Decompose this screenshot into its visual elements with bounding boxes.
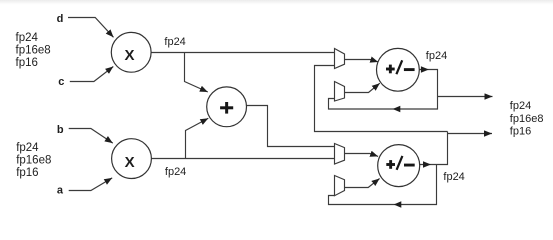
mux A: [335, 49, 345, 69]
mux C: [335, 144, 345, 165]
wire cascade from lower junction up to mux A second input: [315, 66, 448, 132]
multiplier M1 circle: [111, 32, 151, 72]
svg-text:fp24: fp24: [510, 100, 531, 112]
svg-text:fp16e8: fp16e8: [16, 44, 51, 56]
operator +/- of U2 drawn as strokes: [386, 156, 414, 170]
wire tap M1 product down to adder U3: [185, 53, 208, 93]
svg-text:X: X: [124, 47, 134, 64]
svg-text:fp24: fp24: [443, 171, 464, 183]
svg-text:fp24: fp24: [16, 142, 39, 154]
add/sub U1 circle: [377, 48, 420, 91]
operator +/- of U1 drawn as strokes: [386, 60, 415, 74]
wire U2 feedback down and back into mux D: [329, 165, 437, 205]
svg-text:fp16e8: fp16e8: [16, 155, 51, 167]
arrowhead U1 output: [421, 66, 429, 72]
wire mux A output to U1: [345, 60, 379, 63]
svg-text:fp24: fp24: [164, 36, 185, 48]
wire input a: [69, 178, 113, 191]
svg-text:b: b: [57, 124, 64, 136]
svg-text:fp16e8: fp16e8: [510, 113, 544, 125]
svg-text:X: X: [125, 154, 135, 171]
wire mux B output to U1: [345, 83, 380, 92]
svg-text:fp24: fp24: [16, 32, 39, 44]
svg-text:fp16: fp16: [510, 126, 531, 138]
add/sub U2 circle: [378, 145, 420, 187]
operator plus of U3 drawn as strokes: [220, 102, 233, 114]
wire mux D output to U2: [345, 179, 380, 188]
wire multiplier M1 output to mux A: [151, 52, 334, 54]
svg-text:c: c: [58, 76, 64, 88]
svg-text:fp24: fp24: [426, 50, 447, 62]
top edge shading: [0, 0, 553, 5]
svg-text:fp24: fp24: [165, 166, 186, 178]
arrowhead U1 feedback mid-line pointing left: [393, 106, 401, 112]
arrowhead U2 feedback mid-line pointing left: [394, 201, 402, 207]
wire U1 output down and feedback back into mux B: [329, 70, 438, 110]
wire input d: [68, 18, 114, 38]
svg-text:a: a: [57, 185, 64, 197]
wire adder U3 output to mux C upper input: [247, 106, 335, 147]
mux D: [335, 176, 345, 196]
wire input c: [70, 67, 114, 82]
wire input b: [69, 129, 113, 144]
wire U1 result out to right fp24: [438, 96, 493, 98]
mux B: [335, 82, 345, 102]
multiplier M2 circle: [112, 139, 152, 179]
wire multiplier M2 output to mux C: [151, 158, 334, 160]
adder U3 circle: [207, 87, 247, 127]
arrowhead U2 output: [423, 161, 431, 167]
wire lower result out to right fp16: [448, 133, 493, 135]
svg-text:fp16: fp16: [16, 167, 38, 179]
svg-text:fp16: fp16: [16, 57, 38, 69]
wire U2 output to junction and up: [420, 132, 448, 165]
wire tap M2 product up to adder U3: [186, 118, 209, 158]
svg-text:d: d: [57, 13, 64, 25]
wire mux C output to U2: [345, 154, 379, 157]
